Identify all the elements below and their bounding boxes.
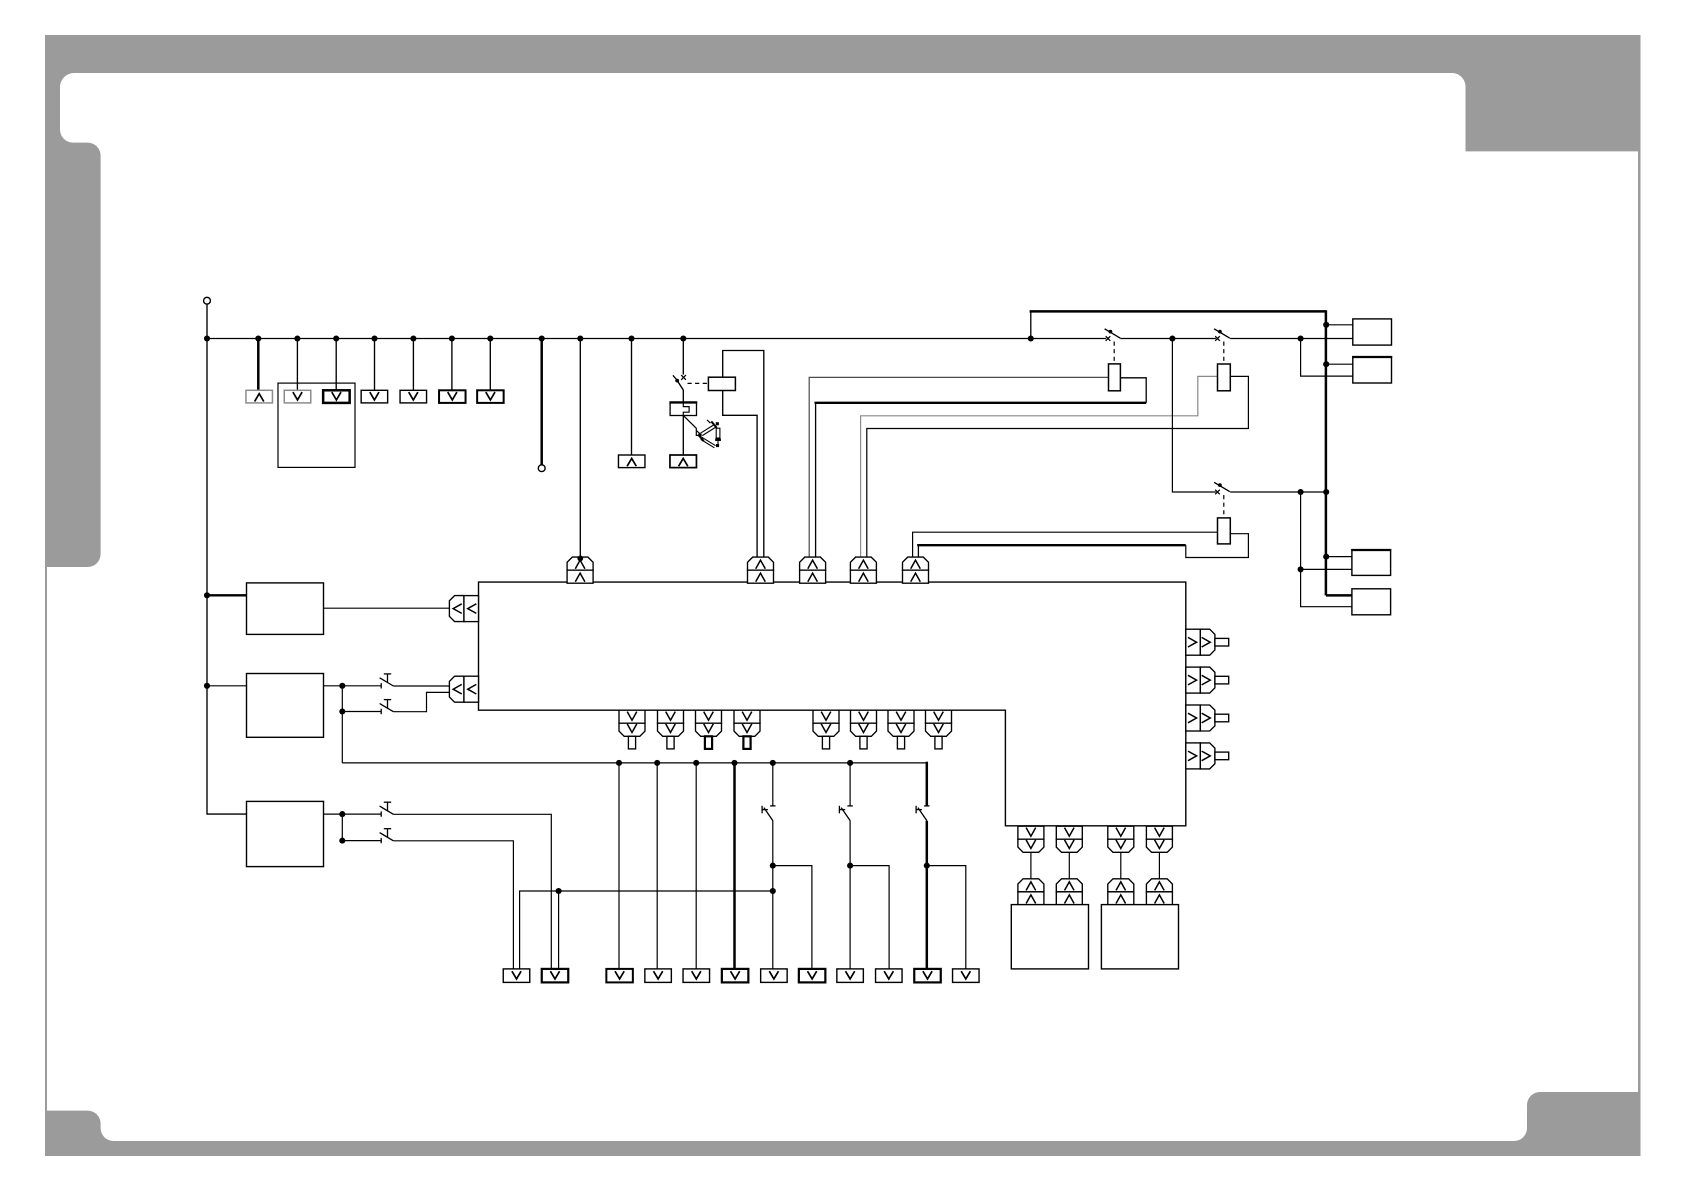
switch SW7 (380, 811, 382, 816)
connector P6 (439, 390, 466, 403)
wire drop to P1 (257, 339, 260, 391)
wire drop to P2 (296, 339, 298, 391)
thermal cutout TH1 (670, 402, 696, 415)
junction dots M2 column (339, 683, 345, 689)
wire ground link bus (520, 891, 773, 969)
connector CN26 (1108, 879, 1134, 892)
terminal T7 (761, 969, 788, 983)
wire SW4 output (1230, 491, 1327, 493)
connector CN20 (1018, 826, 1044, 839)
wire left vertical bus (206, 339, 208, 815)
node antenna terminal (538, 465, 545, 472)
wire speaker SP2 feeds (1327, 363, 1353, 365)
wire bottom distribution bus (342, 762, 927, 764)
connector P3 (323, 390, 350, 403)
junction dots ground link (556, 888, 562, 894)
wire M2 column to bottom bus (341, 712, 343, 763)
wire TH1 to surge absorber (684, 416, 700, 436)
connector CN7 (449, 676, 464, 702)
wire CN22 to woofer plug (1120, 852, 1122, 879)
box M2 (247, 674, 324, 738)
connector P4 (361, 390, 388, 403)
wire drop to P3 (335, 339, 337, 391)
connector P2 (284, 390, 311, 403)
wire dashed SW2-L1 (1113, 342, 1115, 364)
switch SW11 (924, 805, 929, 807)
wire to switch SW8 (342, 840, 381, 842)
terminal T11 (914, 969, 941, 983)
wire M3 branch down (341, 814, 343, 841)
wire drop to switch SW1 (682, 339, 684, 375)
connector CN3 (800, 557, 826, 570)
terminal T9 (837, 969, 864, 983)
wire SW8 to T1 (393, 841, 513, 969)
wire M3 output node (324, 813, 382, 815)
junction dots top bus (204, 335, 210, 341)
connector CN25 (1056, 879, 1082, 892)
wire CN21 to woofer plug (1068, 852, 1070, 879)
wire speaker SP1 feed (1327, 324, 1353, 326)
wire dashed SW4-L3 (1223, 495, 1225, 518)
wire to switch SW6 (342, 711, 381, 713)
solenoid coil L2 (1218, 364, 1231, 391)
connector CN10 (1186, 705, 1201, 731)
connector CN12 (619, 710, 645, 723)
connector CN14 (696, 710, 722, 723)
wire drop to P6 (451, 339, 453, 391)
junction dots bottom bus (616, 760, 622, 766)
connector P9 (670, 455, 697, 468)
breaker switch SW2 (1106, 336, 1111, 341)
wire RY1 bottom to CN2 (723, 391, 757, 558)
connector CN8 (1186, 629, 1201, 655)
switch SW5 (380, 683, 382, 688)
connector CN1 (567, 557, 593, 570)
connector P7 (477, 390, 504, 403)
wire RY1 top to CN2 (723, 351, 764, 558)
wire drop to P7 (489, 339, 491, 391)
wire top supply bus (207, 338, 1106, 340)
wire stub antenna (540, 339, 543, 465)
wire drop to T6 (heavy) (733, 763, 736, 969)
connector CN2 (748, 557, 774, 570)
wire SW10 branch to T10 (850, 866, 889, 969)
wire drop to T4 (656, 763, 658, 969)
connector CN9 (1186, 667, 1201, 693)
solenoid coil L1 (1109, 364, 1121, 391)
connector CN19 (926, 710, 952, 723)
switch SW9 (770, 805, 775, 807)
connector CN15 (734, 710, 760, 723)
connector CN4 (850, 557, 876, 570)
speaker SP2 (1353, 357, 1392, 383)
wire CN4 left pin to solenoid L2 (gray) (861, 376, 1218, 557)
connector CN18 (888, 710, 914, 723)
wire SW11 to T11 (heavy) (926, 821, 929, 969)
wire M2 output node (324, 685, 382, 687)
terminal T6 (722, 969, 749, 983)
connector P5 (400, 390, 427, 403)
junction dots left bus (204, 592, 210, 598)
wire drop to P8 (631, 339, 633, 456)
breaker switch SW4 (1215, 490, 1220, 495)
wire bus to box M2 (207, 685, 247, 687)
wire CN5 right pin to solenoid L3 (heavy) (917, 545, 919, 557)
connector CN24 (1018, 879, 1044, 892)
wire TH1 to P9 (682, 416, 684, 456)
main PCB outline (479, 582, 1186, 826)
connector CN5 (903, 557, 929, 570)
wire drop to switch SW10 (849, 763, 851, 806)
speaker SP3 (1352, 550, 1391, 575)
wire SW11 branch to T12 (927, 866, 966, 969)
wire dashed SW1-RY1 link (688, 382, 709, 384)
breaker switch SW3 (1215, 336, 1220, 341)
wire SW9 branch to T8 (773, 866, 812, 969)
relay RY1 coil (708, 377, 735, 390)
wire feeder to switch SW4 (1172, 339, 1216, 493)
speaker SP1 (1353, 319, 1392, 345)
wire SW6 to CN7 (393, 692, 449, 711)
connector CN16 (813, 710, 839, 723)
connector CN22 (1108, 826, 1134, 839)
connector CN11 (1186, 743, 1201, 769)
wire feed to box M3 (206, 813, 246, 815)
junction dots switch branches (770, 863, 776, 869)
wire drop to switch SW11 (heavy) (926, 762, 929, 806)
wire bus to box M1 (heavy) (207, 594, 247, 596)
terminal T2 (542, 969, 569, 983)
wire SW10 to T9 (849, 821, 851, 969)
wire branch to T2 (558, 891, 560, 969)
wire speaker common (heavy) (1030, 311, 1032, 338)
wire dashed SW3-L2 (1223, 342, 1225, 365)
terminal T5 (683, 969, 710, 983)
woofer box WF2 (1101, 905, 1178, 969)
box M1 (247, 583, 324, 635)
wire speaker SP3 feeds (1327, 556, 1352, 558)
terminal T4 (645, 969, 672, 983)
terminal T8 (799, 969, 826, 983)
connector P8 (618, 455, 645, 468)
junction dots speaker feeds (1323, 322, 1329, 328)
wire CN3 right pin to solenoid L1 (heavy) (815, 403, 817, 557)
switch SW8 (380, 838, 382, 843)
wire drop to P5 (412, 339, 414, 391)
wire CN4 right pin to solenoid L2 (867, 376, 1249, 557)
woofer box WF1 (1011, 905, 1088, 969)
wire drop to switch SW9 (772, 763, 774, 806)
connector CN13 (658, 710, 684, 723)
switch SW6 (380, 709, 382, 714)
wire CN20 to woofer plug (1030, 852, 1032, 879)
terminal T10 (876, 969, 903, 983)
box M3 (247, 801, 324, 866)
wire drop to T3 (618, 763, 620, 969)
bracket box around P2 P3 (278, 383, 355, 467)
switch SW10 (847, 805, 852, 807)
terminal T1 (503, 969, 530, 983)
terminal T12 (953, 969, 980, 983)
connector CN6 (449, 596, 464, 622)
solenoid coil L3 (1218, 518, 1231, 544)
connector CN23 (1146, 826, 1172, 839)
junction dots M3 column (339, 811, 345, 817)
connector CN17 (851, 710, 877, 723)
speaker SP4 (1352, 589, 1391, 615)
surge absorber SA1 (702, 437, 716, 445)
wire CN3 left pin to solenoid L1 (809, 377, 1108, 557)
wire speaker SP4 feed (1301, 569, 1352, 606)
wire SW5 to CN7 (393, 685, 449, 687)
wire drop to P4 (374, 339, 376, 391)
wire drop to CN1 (579, 339, 581, 558)
wire SW1 to TH1 (682, 390, 684, 403)
wire M1 to CN6 (324, 607, 450, 609)
connector CN27 (1146, 879, 1172, 892)
wire B+ feed (206, 304, 208, 338)
connector CN21 (1056, 826, 1082, 839)
terminal T3 (606, 969, 633, 983)
wire M2 branch down (341, 686, 343, 712)
wire CN23 to woofer plug (1158, 852, 1160, 879)
wire drop to T5 (695, 763, 697, 969)
switch SW1 (681, 375, 686, 380)
wire SW7 to T2 (393, 814, 551, 969)
wire SW9 to T7 (772, 821, 774, 969)
connector P1 (246, 390, 273, 403)
node B+ terminal (204, 297, 211, 304)
wire CN5 left pin to solenoid L3 (913, 532, 1218, 557)
